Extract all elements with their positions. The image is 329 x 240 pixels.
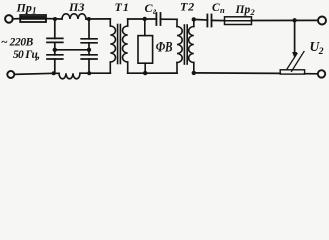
node (output divider tap)	[292, 18, 296, 22]
node (cap stack 2 bottom)	[87, 71, 91, 75]
node (fuse to cap stack 1)	[53, 17, 57, 21]
wire (T2 to Cp)	[194, 18, 208, 21]
wire	[80, 72, 110, 74]
wire	[128, 72, 177, 74]
node (FV tap, bottom)	[143, 71, 147, 75]
svg-text:ПЗ: ПЗ	[68, 0, 84, 14]
svg-text:~ 220В: ~ 220В	[1, 37, 34, 49]
wire	[46, 18, 62, 20]
output terminal top	[318, 17, 326, 25]
fuse Pr1	[20, 15, 46, 22]
fuse Pr2	[225, 17, 252, 25]
node (cap stack 2 midpoint)	[87, 48, 91, 52]
node (cap stack 1 midpoint)	[53, 48, 57, 52]
node (T2 secondary bottom)	[192, 71, 196, 75]
wire	[252, 19, 319, 21]
svg-text:Пр: Пр	[235, 4, 251, 16]
wire (T1 to Cg)	[128, 18, 157, 20]
inductor L bottom (PZ filter)	[59, 73, 80, 79]
svg-text:Т2: Т2	[180, 0, 195, 14]
output terminal bottom	[318, 70, 325, 77]
wiper slash lines	[287, 54, 297, 70]
svg-text:п: п	[220, 5, 225, 15]
wire	[13, 18, 21, 20]
wire	[212, 19, 225, 21]
wire	[305, 73, 318, 75]
transformer T1	[110, 19, 127, 73]
capacitor Cp	[207, 15, 211, 27]
capacitor stack 2 (two caps in series, right)	[81, 19, 97, 73]
svg-text:С: С	[212, 2, 220, 14]
wire	[86, 18, 110, 20]
wire (T2 bottom to resistor)	[194, 72, 280, 75]
capacitor Cg	[156, 13, 160, 25]
svg-text:50 Гц,: 50 Гц,	[13, 49, 39, 61]
input terminal top	[5, 15, 13, 23]
wire (midpoints link)	[55, 49, 89, 51]
wiper arrow	[294, 20, 296, 53]
resistor (output, variable)	[280, 70, 304, 74]
node (FV tap, top)	[143, 17, 147, 21]
svg-text:Т1: Т1	[115, 0, 130, 14]
svg-text:2: 2	[318, 47, 324, 57]
node	[87, 17, 91, 21]
svg-text:2: 2	[250, 7, 256, 17]
svg-text:1: 1	[32, 6, 37, 16]
transformer T2	[177, 19, 194, 73]
box FV (load)	[138, 19, 153, 73]
capacitor stack 1 (two caps in series, left)	[47, 19, 63, 74]
node (cap stack 1 bottom)	[52, 71, 56, 75]
svg-text:ФВ: ФВ	[156, 38, 173, 55]
wire	[14, 73, 59, 74]
input terminal bottom	[7, 71, 14, 78]
svg-text:Пр: Пр	[16, 1, 32, 15]
node (T2 secondary top)	[192, 17, 196, 21]
wire (Cg to T2)	[161, 18, 178, 20]
inductor L top (PZ filter)	[62, 14, 86, 19]
